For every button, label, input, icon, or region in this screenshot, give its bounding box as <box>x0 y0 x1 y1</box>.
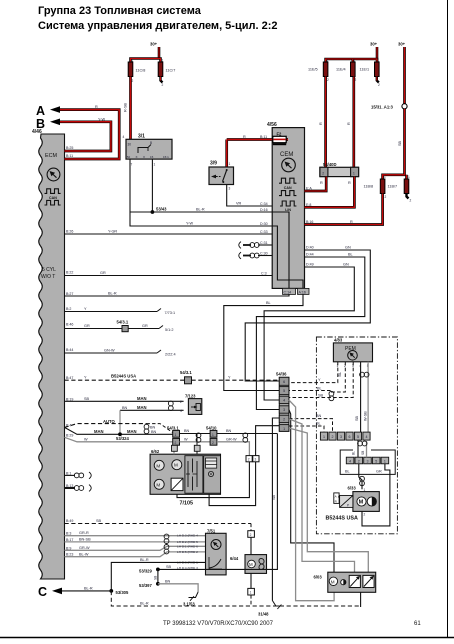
twisted pair on dashed BL/SB <box>329 391 334 400</box>
svg-text:BL: BL <box>348 253 353 257</box>
svg-text:6: 6 <box>349 435 351 439</box>
svg-text:53/43: 53/43 <box>156 207 167 212</box>
svg-text:3: 3 <box>229 187 231 191</box>
svg-text:1: 1 <box>384 175 386 179</box>
twisted CAN stubs ECM B:13 <box>65 485 92 492</box>
twisted pair below strip S1 <box>358 440 367 450</box>
wire GR ECM B:22 to CEM C:3 <box>65 271 273 276</box>
svg-text:50: 50 <box>127 155 131 159</box>
svg-text:2: 2 <box>385 195 387 199</box>
svg-text:C:34: C:34 <box>260 202 268 206</box>
svg-text:Система управления двигателем,: Система управления двигателем, 5-цил. 2:… <box>38 20 278 32</box>
svg-text:5/1:2: 5/1:2 <box>165 328 173 332</box>
svg-text:CAN: CAN <box>49 196 57 200</box>
svg-text:2: 2 <box>378 83 380 87</box>
svg-text:B:29: B:29 <box>66 434 73 438</box>
svg-text:11C/8: 11C/8 <box>136 69 146 73</box>
dashed wire BL-R bottom from 53/305 to 6/03 <box>111 591 360 606</box>
svg-text:B:49: B:49 <box>66 519 73 523</box>
svg-text:11C/7: 11C/7 <box>166 69 176 73</box>
svg-text:1: 1 <box>212 433 214 437</box>
fuse 11E/1 <box>360 59 381 88</box>
svg-text:GR-W: GR-W <box>226 437 237 441</box>
fuse 11C/8 <box>128 59 145 84</box>
wire MAN from ECM B:4 to node 53/324 <box>65 427 173 434</box>
svg-text:B:27: B:27 <box>66 292 73 296</box>
svg-text:BL: BL <box>338 372 342 377</box>
svg-text:W-SB: W-SB <box>363 411 367 421</box>
svg-text:GR: GR <box>376 470 382 474</box>
svg-text:BL-R: BL-R <box>84 586 93 590</box>
svg-text:4: 4 <box>283 399 285 403</box>
gray feeder from 54/36 pin2 to 6/03 heater 1 <box>289 419 355 572</box>
svg-text:BN: BN <box>151 430 157 434</box>
dashed wire BL PEM pin2 to 54/36 pin5 <box>289 362 345 392</box>
svg-text:TP 3998132 V70/V70R/XC70/XC90: TP 3998132 V70/V70R/XC70/XC90 2007 <box>163 621 274 627</box>
B5244S USA dash-dot component box <box>316 337 397 534</box>
pin box 1 below 6/44 <box>248 588 255 605</box>
svg-text:B: B <box>150 141 152 145</box>
svg-text:A: A <box>36 104 45 118</box>
wire from 3/1 pin1 down to node 53/43 <box>151 159 153 212</box>
svg-text:VR: VR <box>236 202 242 206</box>
ignition switch 3/1 <box>123 134 173 167</box>
svg-text:SB: SB <box>355 415 359 421</box>
CEM fuse F2 with red feed wire R from junction <box>227 132 288 146</box>
CEM control unit 4/56 <box>267 122 305 288</box>
svg-text:4: 4 <box>349 459 351 463</box>
svg-text:BL-R: BL-R <box>108 292 117 296</box>
wire R fuse 11B/8 to CEM B:16 <box>305 194 383 225</box>
svg-text:B:19: B:19 <box>66 397 73 401</box>
wire GN CEM D:49 wrap to 54/36 pin4 <box>264 263 354 401</box>
svg-text:R: R <box>347 122 351 125</box>
svg-text:BN: BN <box>226 429 232 433</box>
svg-text:53/397: 53/397 <box>139 583 152 588</box>
svg-text:11E/1: 11E/1 <box>360 68 370 72</box>
svg-text:CEM: CEM <box>280 152 293 158</box>
ground 31/53 <box>183 592 198 607</box>
connector strip 54/36 <box>276 372 289 432</box>
svg-text:ECM: ECM <box>45 153 57 159</box>
svg-text:53/324: 53/324 <box>116 436 129 441</box>
svg-text:1: 1 <box>229 162 231 166</box>
svg-text:BN: BN <box>316 414 322 418</box>
gray wire GR-R ECM B:3 to 7/51 <box>65 531 206 536</box>
svg-text:54/3.1: 54/3.1 <box>117 319 129 324</box>
wires BN GR-W after 54/10 with twist to pin boxes 2 3 <box>217 429 278 456</box>
svg-text:D:49: D:49 <box>306 263 314 267</box>
svg-text:E:8: E:8 <box>306 203 311 207</box>
svg-text:BL-W: BL-W <box>79 552 89 556</box>
wire BL CEM D:44 wrap to 54/36 pin3 <box>256 253 364 410</box>
page frame right border <box>447 0 449 638</box>
wire Y-GR ECM B:26 to CEM C:33 <box>65 230 273 235</box>
svg-text:BL: BL <box>266 301 271 305</box>
svg-text:1: 1 <box>154 163 156 167</box>
svg-text:M: M <box>359 500 364 506</box>
svg-text:2: 2 <box>250 533 252 537</box>
svg-text:B:1: B:1 <box>66 471 71 475</box>
CEM internal wire D:30 to A:16 and out BL down to 54/36 pin5 <box>224 226 309 391</box>
svg-text:R: R <box>243 135 246 139</box>
svg-text:54/40D: 54/40D <box>323 162 337 167</box>
svg-text:AUTO: AUTO <box>103 419 116 424</box>
svg-text:Y-W: Y-W <box>186 222 193 226</box>
svg-text:GR: GR <box>142 324 148 328</box>
svg-text:BN: BN <box>165 579 171 583</box>
svg-text:X: X <box>143 155 145 159</box>
wire W-SB PEM pin5 down to strip pin4 <box>363 362 368 432</box>
svg-text:LH D:1 (RHD 6: LH D:1 (RHD 6 <box>177 545 198 549</box>
dashed wire SB ECM B:49 to pin box 2 <box>65 519 252 531</box>
ECM control unit 4/46 <box>32 129 65 579</box>
svg-text:M: M <box>174 463 178 468</box>
svg-text:C:33: C:33 <box>260 230 268 234</box>
svg-text:C:30: C:30 <box>260 251 268 255</box>
CEM internal wire D:16 to C:14 and out to ECM B:27 <box>65 212 296 296</box>
svg-text:SB: SB <box>318 394 324 398</box>
svg-text:B:46: B:46 <box>66 323 73 327</box>
svg-text:30+: 30+ <box>370 42 378 47</box>
climate unit 6/62 <box>150 449 220 494</box>
svg-text:W: W <box>184 437 188 441</box>
connector 54/3.1 lower <box>167 426 180 445</box>
gray feeder from 54/36 pin4 slant down <box>289 400 334 601</box>
ECM pin labels <box>66 146 73 557</box>
svg-text:BN-SB: BN-SB <box>79 538 91 542</box>
svg-text:W/O T: W/O T <box>41 274 55 280</box>
svg-text:54/36: 54/36 <box>276 372 287 377</box>
svg-text:GR-R: GR-R <box>79 531 89 535</box>
svg-text:BL: BL <box>345 470 350 474</box>
footer <box>163 621 421 627</box>
wire fuse 11E/4 down to connector 54/40D pin1 <box>347 77 354 168</box>
svg-text:4: 4 <box>366 435 368 439</box>
svg-text:2: 2 <box>248 458 250 462</box>
wires below S2 to fuel pump 6/33 <box>345 464 382 490</box>
connector strip S1 pins 1 2 3 6 5 4 <box>320 432 370 440</box>
svg-text:7/123: 7/123 <box>185 394 196 399</box>
svg-text:CAN: CAN <box>284 186 292 190</box>
CEM right pin labels D:40 D:44 D:49 <box>306 246 314 267</box>
fuse 11C/7 <box>158 59 175 88</box>
svg-text:R-SB: R-SB <box>124 102 128 112</box>
wire B: Y-W from arrow to ECM B:25 <box>60 117 111 151</box>
twisted pair symbol between 7/123 wires <box>168 401 173 410</box>
fuel pump 6/33 <box>348 486 380 517</box>
svg-text:3: 3 <box>283 408 285 412</box>
svg-text:X: X <box>136 155 138 159</box>
radiator fan 6/44 <box>230 555 267 589</box>
wire Y dashed ECM B:47 via 54/3.1 to 54/36 pin6 B5244S USA <box>65 370 280 384</box>
30+ supply left <box>131 42 161 63</box>
svg-text:2: 2 <box>358 459 360 463</box>
svg-text:GR-W: GR-W <box>79 546 90 550</box>
wire Y ECM B:2 stub to 7/73:1 <box>65 307 176 315</box>
gray loop at 6/03 heater bottoms <box>360 592 362 607</box>
svg-text:BL-R: BL-R <box>196 208 205 212</box>
svg-text:LH D:3 (RHD 4: LH D:3 (RHD 4 <box>177 534 198 538</box>
svg-text:A: A <box>335 494 337 498</box>
svg-text:7/105: 7/105 <box>180 501 194 507</box>
pin box 2 above 6/62 loop <box>246 456 252 462</box>
svg-text:6/62: 6/62 <box>151 449 160 454</box>
svg-text:2: 2 <box>162 83 164 87</box>
svg-text:2: 2 <box>410 199 412 203</box>
svg-text:BL: BL <box>317 386 322 390</box>
wire E:A red CEM to 54/40D pin2 <box>305 177 327 191</box>
wire loop 6/33 pin2 to S2 pin1 <box>362 464 390 526</box>
svg-text:6: 6 <box>283 380 285 384</box>
svg-text:D:44: D:44 <box>306 253 314 257</box>
twisted pair tall at MAN/AUTO rows <box>144 424 149 433</box>
wire SB PEM pin4 down to strip pin5 <box>355 362 361 432</box>
svg-text:1: 1 <box>384 459 386 463</box>
svg-text:Группа 23 Топливная система: Группа 23 Топливная система <box>38 5 202 17</box>
svg-text:C:3: C:3 <box>261 271 267 275</box>
svg-text:B:2: B:2 <box>66 307 71 311</box>
svg-text:SB: SB <box>166 565 172 569</box>
wire BN MAN row to 7/123 pin4 <box>120 405 184 435</box>
svg-text:GN: GN <box>345 246 351 250</box>
wire E:8 red CEM to 54/40D pin1 <box>305 177 355 208</box>
svg-text:1: 1 <box>250 591 252 595</box>
gray feeder from 54/36 pin1 to 6/03 heater 2 <box>289 428 368 572</box>
svg-text:BN: BN <box>184 429 190 433</box>
wire from pin box 2 loop into 6/62 <box>177 462 249 498</box>
svg-text:B:47: B:47 <box>66 376 73 380</box>
svg-text:GN-W: GN-W <box>104 349 115 353</box>
heater unit 6/03 <box>314 572 376 592</box>
connector housing S2 <box>340 450 395 474</box>
svg-text:6/03: 6/03 <box>314 575 323 580</box>
twisted CAN stubs ECM B:1 <box>65 472 92 479</box>
svg-text:2: 2 <box>212 441 214 445</box>
7/51 pin labels <box>177 534 198 570</box>
node 53/43 <box>130 207 167 214</box>
arrow B <box>36 117 60 131</box>
header title <box>38 5 278 32</box>
svg-text:30: 30 <box>128 143 132 147</box>
switch 3/9 <box>209 140 234 191</box>
svg-text:B:16: B:16 <box>306 220 313 224</box>
6/62 top pin boxes <box>172 434 201 455</box>
svg-text:1: 1 <box>323 435 325 439</box>
wire GR ECM B:46 via connector 54/3.1 to 5/1:2 <box>65 319 174 331</box>
svg-text:MAN: MAN <box>127 429 137 434</box>
node 15/31_A1:3 <box>371 104 407 110</box>
svg-text:2: 2 <box>322 171 324 175</box>
dashed wire SB PEM pin3 to 54/36 <box>289 362 353 398</box>
svg-text:M: M <box>249 562 253 567</box>
svg-text:SB: SB <box>96 519 102 523</box>
wire W ECM B:29 to 54/3.1 pin2 <box>65 437 173 442</box>
svg-text:15/31_A1:3: 15/31_A1:3 <box>371 104 394 109</box>
svg-text:E:A: E:A <box>306 187 312 191</box>
svg-text:BL-R: BL-R <box>140 602 149 606</box>
svg-text:2: 2 <box>180 400 182 404</box>
svg-text:R: R <box>319 122 323 125</box>
gray wire BN-SB ECM B:17 to 7/51 <box>65 538 206 542</box>
svg-text:B:25: B:25 <box>66 146 73 150</box>
svg-text:R: R <box>348 181 351 185</box>
dashed BN jog from AUTO row to 54/3.1 <box>147 424 173 433</box>
svg-text:54/3.1: 54/3.1 <box>180 370 192 375</box>
wire BL-R node 53/43 to CEM D:16 <box>152 208 272 213</box>
pin box 2 above 6/44 <box>248 531 255 555</box>
fuse 11B/7 <box>388 175 412 203</box>
connector 54/40D <box>320 162 359 177</box>
svg-text:BN: BN <box>122 406 128 410</box>
node 53/324 <box>116 432 129 441</box>
wire A: R from arrow to ECM B:11 <box>60 105 119 159</box>
twisted pair on B:3/B:17 <box>164 534 169 543</box>
fuse 11E/5 <box>308 59 329 83</box>
svg-text:BL: BL <box>316 422 321 426</box>
svg-text:1: 1 <box>283 427 285 431</box>
svg-text:30+: 30+ <box>150 42 158 47</box>
dashed wire Y PEM pin1 to 54/36 pin6 <box>289 362 338 383</box>
svg-text:LIN: LIN <box>285 208 291 212</box>
arrow C <box>38 585 62 599</box>
svg-text:11B/8: 11B/8 <box>364 185 374 189</box>
svg-text:W: W <box>84 437 88 441</box>
svg-text:B:11: B:11 <box>260 135 267 139</box>
gray feeder from 54/36 pin3 down to 6/03 M <box>289 410 334 573</box>
svg-text:B5244S USA: B5244S USA <box>326 516 358 522</box>
wires BN W between 54/3.1 and 54/10 with twist <box>180 429 211 442</box>
svg-text:B:44: B:44 <box>66 348 73 352</box>
svg-text:53/305: 53/305 <box>116 590 129 595</box>
node 53/305 and wire BL-R to arrow C <box>62 586 129 595</box>
wire GN CEM D:40 wrap to 54/36 pin6 <box>245 246 370 382</box>
svg-text:1: 1 <box>353 171 355 175</box>
svg-text:11E/4: 11E/4 <box>336 68 346 72</box>
svg-text:5: 5 <box>375 459 377 463</box>
blower power stage 7/105 label <box>180 501 194 507</box>
svg-text:GN: GN <box>343 263 349 267</box>
svg-text:MAN: MAN <box>137 405 147 410</box>
svg-text:A:16: A:16 <box>299 290 306 294</box>
svg-text:2: 2 <box>283 417 285 421</box>
svg-text:C:31: C:31 <box>260 241 268 245</box>
wire SB node 53/329 down to node 53/397 <box>139 569 160 587</box>
ground 31/48 lead <box>258 418 282 617</box>
page frame bottom border <box>0 637 454 639</box>
wire R-SB fuse 11C/8 to ignition switch 3/1 pin 4 <box>124 77 131 140</box>
svg-text:M: M <box>156 482 160 487</box>
pin box 3 above 6/62 loop <box>253 456 259 462</box>
svg-text:2: 2 <box>327 78 329 82</box>
svg-text:53/329: 53/329 <box>139 568 152 573</box>
svg-text:1: 1 <box>408 175 410 179</box>
svg-text:LH D:5 (RHD 2: LH D:5 (RHD 2 <box>177 550 198 554</box>
svg-text:2: 2 <box>364 513 366 517</box>
fuel pressure sensor arrows and filter left of 6/33 <box>334 493 353 508</box>
svg-text:SB: SB <box>84 397 90 401</box>
svg-text:BL: BL <box>352 451 356 455</box>
svg-text:30+: 30+ <box>398 42 406 47</box>
svg-text:3: 3 <box>367 459 369 463</box>
svg-text:B5244S USA: B5244S USA <box>111 374 136 379</box>
svg-text:5 CYL: 5 CYL <box>42 267 56 273</box>
svg-text:5: 5 <box>357 435 359 439</box>
svg-text:D:16: D:16 <box>260 208 268 212</box>
svg-text:MAN: MAN <box>94 429 104 434</box>
control module 7/51 <box>206 528 227 575</box>
svg-text:M: M <box>156 463 160 468</box>
wire BL-R from 53/305 up to 7/51 <box>111 558 205 591</box>
svg-text:D:40: D:40 <box>306 246 314 250</box>
svg-text:6/33: 6/33 <box>348 486 357 491</box>
twisted pair on PEM pins 4-5 <box>360 372 369 377</box>
wire SB ECM B:19 MAN to 7/123 pin2 <box>65 396 184 402</box>
svg-text:B:26: B:26 <box>66 230 73 234</box>
svg-text:5: 5 <box>283 389 285 393</box>
svg-text:2/22:4: 2/22:4 <box>165 353 176 357</box>
svg-text:BL-R: BL-R <box>140 558 149 562</box>
svg-text:1: 1 <box>175 433 177 437</box>
svg-text:3: 3 <box>255 458 257 462</box>
svg-text:Y-GR: Y-GR <box>108 230 117 234</box>
gray wire BL-W ECM B:23 to 7/51 <box>65 552 206 557</box>
wire from pin box 3 loop into 6/62 <box>209 462 256 506</box>
node 53/329 and SB wire from 6/62 area <box>139 434 277 574</box>
arrow A <box>36 104 60 118</box>
CAN twisted pair stubs into CEM C:31 C:30 <box>239 242 272 259</box>
CEM left pin labels <box>260 202 268 275</box>
svg-text:SB: SB <box>398 140 402 146</box>
svg-text:4: 4 <box>180 409 182 413</box>
svg-text:11B/7: 11B/7 <box>388 185 398 189</box>
svg-text:GR: GR <box>100 271 106 275</box>
svg-text:11E/5: 11E/5 <box>308 68 318 72</box>
svg-text:7: 7 <box>131 163 133 167</box>
svg-text:C:14: C:14 <box>284 290 292 294</box>
svg-text:4: 4 <box>123 135 125 139</box>
wire from 3/1 pin7 down, Y-W row to CEM D:30 <box>130 159 272 226</box>
svg-text:61: 61 <box>414 621 421 627</box>
svg-text:P: P <box>347 504 349 508</box>
30+ supply right <box>398 42 406 104</box>
svg-text:3: 3 <box>340 435 342 439</box>
svg-text:SB: SB <box>361 451 365 455</box>
svg-text:R: R <box>95 105 98 109</box>
svg-text:15: 15 <box>150 155 154 159</box>
wire R from 15/31 node down to fuses 11B/8 11B/7 <box>383 109 407 179</box>
svg-text:MAN: MAN <box>137 396 147 401</box>
svg-text:D:30: D:30 <box>260 222 268 226</box>
svg-text:3/1: 3/1 <box>138 134 145 140</box>
svg-text:2: 2 <box>175 441 177 445</box>
fuse 11E/4 <box>336 59 357 83</box>
svg-text:7/73:1: 7/73:1 <box>165 311 176 315</box>
AC relay 7/123 <box>180 394 202 415</box>
30+ supply top middle <box>326 42 378 63</box>
svg-text:BN: BN <box>150 426 156 430</box>
svg-text:R: R <box>320 181 323 185</box>
svg-text:31/48: 31/48 <box>258 612 269 617</box>
wire AUTO dashed from ECM B:4 <box>65 419 147 427</box>
svg-text:7/51: 7/51 <box>207 528 216 533</box>
dashed wire BN into 54/36 pin2 <box>289 414 333 432</box>
svg-text:2: 2 <box>332 435 334 439</box>
svg-text:B: B <box>36 117 45 131</box>
wire VR from 3/9 pin3 to CEM C:34 <box>227 185 273 207</box>
twisted pair on B:9/B:23 <box>164 545 169 554</box>
wire GN-W ECM B:44 stub to 2/22:4 <box>65 349 176 357</box>
